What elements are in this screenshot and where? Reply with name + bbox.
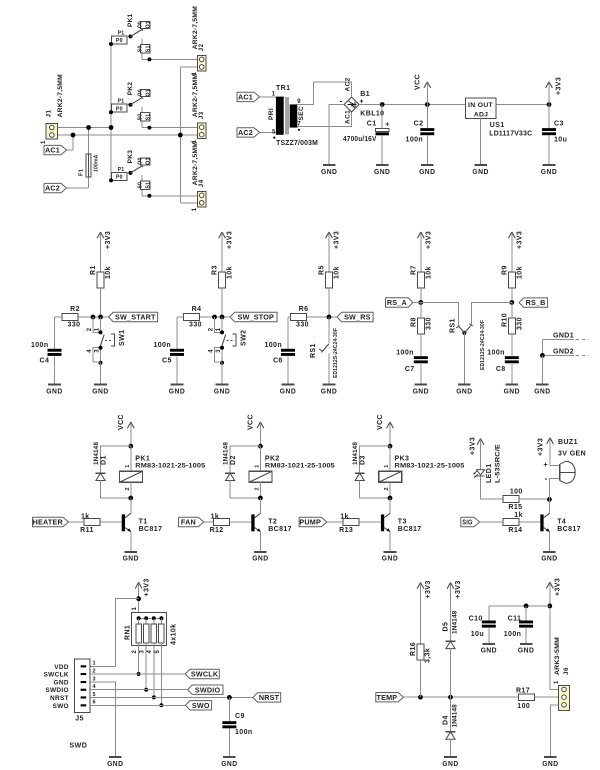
svg-text:4: 4 xyxy=(209,349,215,353)
svg-text:AC2: AC2 xyxy=(45,184,60,193)
svg-text:TSZZ7/003M: TSZZ7/003M xyxy=(276,140,318,147)
svg-text:PRI: PRI xyxy=(268,108,275,120)
svg-text:ARK2-7,5MM: ARK2-7,5MM xyxy=(192,142,199,185)
svg-text:S0: S0 xyxy=(138,114,144,121)
svg-text:OUT: OUT xyxy=(478,102,494,109)
svg-text:GND: GND xyxy=(107,759,123,768)
svg-text:SWO: SWO xyxy=(52,703,68,710)
svg-text:100n: 100n xyxy=(487,350,505,357)
svg-text:GND: GND xyxy=(374,167,390,176)
svg-text:AC1: AC1 xyxy=(238,93,253,102)
svg-text:330: 330 xyxy=(517,317,524,330)
svg-text:P0: P0 xyxy=(116,106,123,112)
svg-text:PUMP: PUMP xyxy=(299,518,321,527)
svg-text:1N4148: 1N4148 xyxy=(93,442,100,465)
svg-text:100: 100 xyxy=(517,703,530,710)
svg-text:C10: C10 xyxy=(469,615,483,622)
svg-text:1: 1 xyxy=(93,661,96,667)
svg-text:GND: GND xyxy=(54,680,69,687)
svg-text:US1: US1 xyxy=(490,122,505,129)
svg-text:R4: R4 xyxy=(192,306,202,313)
svg-text:O1: O1 xyxy=(146,89,152,96)
svg-text:GND: GND xyxy=(541,554,557,563)
svg-text:1: 1 xyxy=(192,207,198,211)
svg-text:GND: GND xyxy=(542,759,558,768)
svg-text:2: 2 xyxy=(87,327,93,331)
svg-text:+3V3: +3V3 xyxy=(538,438,545,456)
svg-text:R3: R3 xyxy=(212,265,219,275)
svg-text:GND: GND xyxy=(252,554,268,563)
svg-text:SW2: SW2 xyxy=(241,330,248,346)
svg-text:T2: T2 xyxy=(268,518,277,525)
svg-text:1N4148: 1N4148 xyxy=(451,704,458,728)
svg-text:T3: T3 xyxy=(398,518,407,525)
svg-text:C7: C7 xyxy=(405,366,415,373)
svg-text:PK2: PK2 xyxy=(127,82,134,96)
svg-text:PK3: PK3 xyxy=(395,455,410,462)
svg-text:+3V3: +3V3 xyxy=(426,231,433,249)
svg-text:FAN: FAN xyxy=(181,518,196,527)
svg-text:LED1: LED1 xyxy=(486,464,493,484)
svg-text:+3V3: +3V3 xyxy=(227,231,234,249)
svg-text:SW_START: SW_START xyxy=(115,313,156,322)
svg-text:1: 1 xyxy=(216,327,222,331)
svg-text:T1: T1 xyxy=(139,518,148,525)
svg-text:AC2: AC2 xyxy=(345,77,352,91)
svg-text:P1: P1 xyxy=(118,31,125,37)
svg-text:5: 5 xyxy=(272,130,276,136)
svg-text:PK2: PK2 xyxy=(265,455,280,462)
svg-text:1: 1 xyxy=(384,464,390,467)
svg-text:IN: IN xyxy=(468,102,475,109)
svg-text:100n: 100n xyxy=(264,342,282,349)
svg-text:1k: 1k xyxy=(211,513,220,520)
svg-text:AC1: AC1 xyxy=(345,110,352,124)
svg-text:1k: 1k xyxy=(340,513,349,520)
svg-text:AC1: AC1 xyxy=(45,146,60,155)
svg-text:GND: GND xyxy=(472,167,488,176)
svg-text:VDD: VDD xyxy=(54,664,69,671)
svg-text:R12: R12 xyxy=(210,527,224,534)
svg-text:C4: C4 xyxy=(40,358,50,365)
svg-text:100n: 100n xyxy=(31,342,49,349)
svg-text:SW1: SW1 xyxy=(119,330,126,346)
svg-text:PK3: PK3 xyxy=(127,150,134,164)
svg-text:+3V3: +3V3 xyxy=(334,231,341,249)
svg-text:SIG: SIG xyxy=(462,518,472,527)
svg-text:1: 1 xyxy=(132,607,138,611)
svg-text:100n: 100n xyxy=(235,729,253,736)
svg-text:10k: 10k xyxy=(426,266,433,279)
svg-text:SWDIO: SWDIO xyxy=(45,687,69,694)
svg-text:100: 100 xyxy=(510,488,523,495)
svg-text:+3V3: +3V3 xyxy=(105,231,112,249)
svg-text:SWD: SWD xyxy=(70,742,88,749)
svg-text:PK1: PK1 xyxy=(135,455,150,462)
svg-text:P0: P0 xyxy=(116,175,123,181)
svg-text:GND: GND xyxy=(413,386,429,395)
svg-text:S1: S1 xyxy=(146,182,152,189)
svg-text:RS_B: RS_B xyxy=(526,298,546,307)
svg-text:RS1: RS1 xyxy=(450,318,457,333)
svg-text:BC817: BC817 xyxy=(139,526,163,533)
svg-text:R9: R9 xyxy=(501,265,508,275)
svg-text:HEATER: HEATER xyxy=(33,518,64,527)
svg-text:3: 3 xyxy=(140,650,146,654)
svg-text:10k: 10k xyxy=(105,266,112,279)
svg-text:J4: J4 xyxy=(198,179,205,187)
svg-text:C11: C11 xyxy=(508,615,522,622)
svg-text:P0: P0 xyxy=(116,38,123,44)
svg-text:GND: GND xyxy=(481,646,497,655)
svg-text:1: 1 xyxy=(254,464,260,467)
svg-text:1: 1 xyxy=(94,327,100,331)
svg-text:100n: 100n xyxy=(396,350,414,357)
svg-text:VCC: VCC xyxy=(415,74,422,90)
svg-text:PK1: PK1 xyxy=(127,13,134,27)
svg-text:F1: F1 xyxy=(79,168,85,176)
svg-text:R7: R7 xyxy=(410,265,417,275)
svg-text:10k: 10k xyxy=(334,266,341,279)
svg-text:R13: R13 xyxy=(339,527,353,534)
svg-text:C6: C6 xyxy=(273,358,283,365)
svg-text:GND: GND xyxy=(419,167,435,176)
svg-text:ARK2-7,5MM: ARK2-7,5MM xyxy=(57,74,64,117)
svg-text:P1: P1 xyxy=(118,99,125,105)
svg-text:TEMP: TEMP xyxy=(377,693,398,702)
svg-text:C2: C2 xyxy=(414,121,424,128)
svg-text:RS_A: RS_A xyxy=(387,298,407,307)
svg-text:D2: D2 xyxy=(230,455,237,465)
svg-text:+: + xyxy=(544,462,549,469)
svg-text:D5: D5 xyxy=(443,622,450,632)
svg-text:ED1212S-24C24-30F: ED1212S-24C24-30F xyxy=(333,328,339,378)
svg-text:GND: GND xyxy=(442,759,458,768)
svg-text:D4: D4 xyxy=(443,715,450,725)
svg-text:+3V3: +3V3 xyxy=(556,77,563,95)
svg-text:RM83-1021-25-1005: RM83-1021-25-1005 xyxy=(135,463,205,470)
svg-text:10u: 10u xyxy=(554,137,567,144)
svg-text:R16: R16 xyxy=(410,642,417,656)
svg-text:VCC: VCC xyxy=(118,414,125,430)
svg-text:C9: C9 xyxy=(235,713,245,720)
svg-text:C3: C3 xyxy=(554,121,564,128)
svg-text:+3V3: +3V3 xyxy=(517,231,524,249)
svg-text:10k: 10k xyxy=(227,266,234,279)
svg-text:2: 2 xyxy=(209,327,215,331)
svg-text:C8: C8 xyxy=(496,366,506,373)
svg-text:+3V3: +3V3 xyxy=(425,580,432,598)
svg-text:GND2: GND2 xyxy=(553,349,574,356)
svg-text:1: 1 xyxy=(554,680,560,684)
svg-text:J3: J3 xyxy=(198,111,205,119)
svg-text:4: 4 xyxy=(147,650,153,654)
svg-text:R14: R14 xyxy=(508,527,522,534)
svg-text:B1: B1 xyxy=(360,91,370,98)
svg-text:AC2: AC2 xyxy=(238,128,253,137)
svg-text:R2: R2 xyxy=(70,306,80,313)
svg-text:VCC: VCC xyxy=(247,414,254,430)
svg-text:BUZ1: BUZ1 xyxy=(558,439,578,446)
svg-text:O1: O1 xyxy=(146,21,152,28)
svg-text:GND: GND xyxy=(321,167,337,176)
svg-text:2: 2 xyxy=(384,487,390,490)
svg-text:R17: R17 xyxy=(516,688,530,695)
svg-text:R10: R10 xyxy=(501,313,508,327)
svg-text:ADJ: ADJ xyxy=(474,111,489,118)
svg-text:L-53SRC/E: L-53SRC/E xyxy=(495,443,502,483)
svg-text:NRST: NRST xyxy=(50,695,69,702)
svg-text:BC817: BC817 xyxy=(398,526,422,533)
svg-text:5: 5 xyxy=(93,692,96,698)
svg-text:SWCLK: SWCLK xyxy=(191,670,219,679)
svg-text:O1: O1 xyxy=(146,157,152,164)
svg-text:1k: 1k xyxy=(514,512,523,519)
svg-text:+3V3: +3V3 xyxy=(455,580,462,598)
svg-text:KBL10: KBL10 xyxy=(360,111,384,118)
svg-text:1: 1 xyxy=(125,464,131,467)
svg-text:R6: R6 xyxy=(299,306,309,313)
svg-text:S0: S0 xyxy=(138,45,144,52)
svg-text:1N4148: 1N4148 xyxy=(222,442,229,465)
svg-text:RM83-1021-25-1005: RM83-1021-25-1005 xyxy=(265,463,335,470)
svg-text:NRST: NRST xyxy=(259,693,280,702)
svg-text:GND: GND xyxy=(214,386,230,395)
svg-text:R5: R5 xyxy=(319,265,326,275)
svg-text:O0: O0 xyxy=(138,21,144,28)
svg-text:4: 4 xyxy=(93,684,97,690)
svg-text:O0: O0 xyxy=(138,157,144,164)
svg-text:GND: GND xyxy=(382,554,398,563)
svg-text:10u: 10u xyxy=(471,631,484,638)
svg-text:GND: GND xyxy=(534,386,550,395)
svg-text:C5: C5 xyxy=(162,358,172,365)
svg-text:+3V3: +3V3 xyxy=(470,437,477,455)
svg-text:GND: GND xyxy=(456,386,472,395)
svg-text:4: 4 xyxy=(87,349,93,353)
svg-text:+: + xyxy=(385,122,390,129)
svg-text:5: 5 xyxy=(155,650,161,654)
svg-text:100mA: 100mA xyxy=(94,154,100,172)
svg-text:100n: 100n xyxy=(153,342,171,349)
svg-text:2: 2 xyxy=(132,650,138,654)
svg-text:3: 3 xyxy=(216,349,222,353)
svg-text:GND: GND xyxy=(221,759,237,768)
svg-text:GND: GND xyxy=(321,386,337,395)
svg-text:BC817: BC817 xyxy=(268,526,292,533)
svg-text:330: 330 xyxy=(426,317,433,330)
svg-text:4700u/16V: 4700u/16V xyxy=(343,136,377,143)
svg-text:3V GEN: 3V GEN xyxy=(558,451,586,458)
svg-text:2: 2 xyxy=(125,487,131,490)
svg-text:ARK3-5MM: ARK3-5MM xyxy=(554,637,561,675)
svg-text:GND: GND xyxy=(92,386,108,395)
svg-text:RM83-1021-25-1005: RM83-1021-25-1005 xyxy=(395,463,465,470)
svg-text:1: 1 xyxy=(272,92,276,98)
svg-text:GND1: GND1 xyxy=(553,333,574,340)
svg-text:BC817: BC817 xyxy=(557,526,581,533)
svg-text:R15: R15 xyxy=(508,504,522,511)
svg-text:2: 2 xyxy=(254,487,260,490)
svg-text:SW_STOP: SW_STOP xyxy=(238,313,274,322)
svg-text:GND: GND xyxy=(504,386,520,395)
svg-text:C1: C1 xyxy=(367,121,377,128)
svg-text:S1: S1 xyxy=(146,114,152,121)
svg-text:SWO: SWO xyxy=(192,701,210,710)
svg-text:R8: R8 xyxy=(410,317,417,327)
svg-text:RS1: RS1 xyxy=(310,343,317,358)
svg-text:4x10k: 4x10k xyxy=(171,624,178,645)
svg-text:1N4148: 1N4148 xyxy=(352,442,359,465)
svg-text:J2: J2 xyxy=(198,43,205,51)
svg-text:100n: 100n xyxy=(406,137,424,144)
svg-text:R11: R11 xyxy=(80,527,94,534)
svg-text:J6: J6 xyxy=(563,667,570,675)
svg-text:ARK2-7,5MM: ARK2-7,5MM xyxy=(192,6,199,49)
svg-text:SEC: SEC xyxy=(298,106,305,121)
svg-text:GND: GND xyxy=(541,167,557,176)
svg-text:J1: J1 xyxy=(46,109,53,117)
svg-text:GND: GND xyxy=(518,646,534,655)
svg-text:GND: GND xyxy=(46,386,62,395)
svg-text:+3V3: +3V3 xyxy=(555,578,562,596)
svg-text:330: 330 xyxy=(296,322,309,329)
svg-text:S0: S0 xyxy=(138,182,144,189)
svg-text:J5: J5 xyxy=(75,716,84,723)
svg-text:ED1212S-24C24-30F: ED1212S-24C24-30F xyxy=(480,320,486,370)
svg-text:R1: R1 xyxy=(90,265,97,275)
svg-text:O0: O0 xyxy=(138,89,144,96)
svg-text:330: 330 xyxy=(68,322,81,329)
svg-text:GND: GND xyxy=(123,554,139,563)
svg-text:RN1: RN1 xyxy=(125,625,132,640)
svg-text:SWDIO: SWDIO xyxy=(195,685,221,694)
svg-text:3: 3 xyxy=(94,349,100,353)
svg-text:10k: 10k xyxy=(517,266,524,279)
svg-text:1: 1 xyxy=(41,140,47,144)
svg-text:+3V3: +3V3 xyxy=(143,578,150,596)
svg-text:TR1: TR1 xyxy=(276,85,290,92)
svg-text:SWCLK: SWCLK xyxy=(44,672,69,679)
svg-text:D3: D3 xyxy=(360,455,367,465)
svg-text:P1: P1 xyxy=(118,167,125,173)
svg-text:1k: 1k xyxy=(81,513,90,520)
svg-text:GND: GND xyxy=(280,386,296,395)
svg-text:-: - xyxy=(545,474,548,483)
svg-text:3,3k: 3,3k xyxy=(425,648,432,663)
svg-text:S1: S1 xyxy=(146,45,152,52)
svg-text:100n: 100n xyxy=(504,631,522,638)
svg-text:T4: T4 xyxy=(557,518,566,525)
svg-text:ARK2-7,5MM: ARK2-7,5MM xyxy=(192,74,199,117)
svg-text:D1: D1 xyxy=(101,455,108,465)
svg-text:1N4148: 1N4148 xyxy=(451,610,458,634)
svg-text:SW_RS: SW_RS xyxy=(344,313,371,322)
svg-text:GND: GND xyxy=(169,386,185,395)
svg-text:330: 330 xyxy=(189,322,202,329)
svg-text:LD1117V33C: LD1117V33C xyxy=(489,131,532,138)
svg-text:VCC: VCC xyxy=(377,414,384,430)
